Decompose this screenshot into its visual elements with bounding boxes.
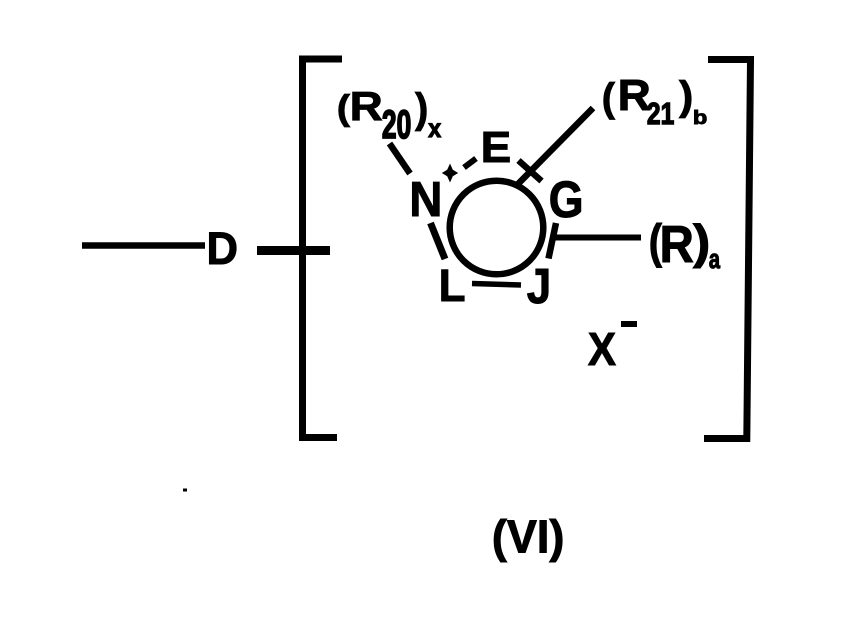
svg-text:): ) <box>679 73 693 119</box>
svg-text:): ) <box>415 85 428 132</box>
svg-text:(: ( <box>602 76 616 120</box>
svg-text:D: D <box>207 224 239 274</box>
svg-text:a: a <box>709 244 721 273</box>
svg-text:20: 20 <box>382 104 411 148</box>
svg-text:J: J <box>527 259 551 314</box>
svg-text:R: R <box>350 84 383 129</box>
svg-text:21: 21 <box>647 96 674 130</box>
svg-text:(VI): (VI) <box>492 511 564 563</box>
svg-text:R: R <box>618 70 651 120</box>
svg-text:R: R <box>660 215 694 274</box>
svg-text:N: N <box>409 172 442 227</box>
svg-text:x: x <box>428 115 441 144</box>
svg-text:L: L <box>439 262 466 312</box>
svg-text:G: G <box>549 172 584 228</box>
svg-text:X: X <box>588 324 616 375</box>
svg-text:): ) <box>693 216 710 268</box>
svg-text:(: ( <box>337 88 351 127</box>
svg-text:b: b <box>693 106 707 129</box>
svg-text:E: E <box>481 122 512 172</box>
